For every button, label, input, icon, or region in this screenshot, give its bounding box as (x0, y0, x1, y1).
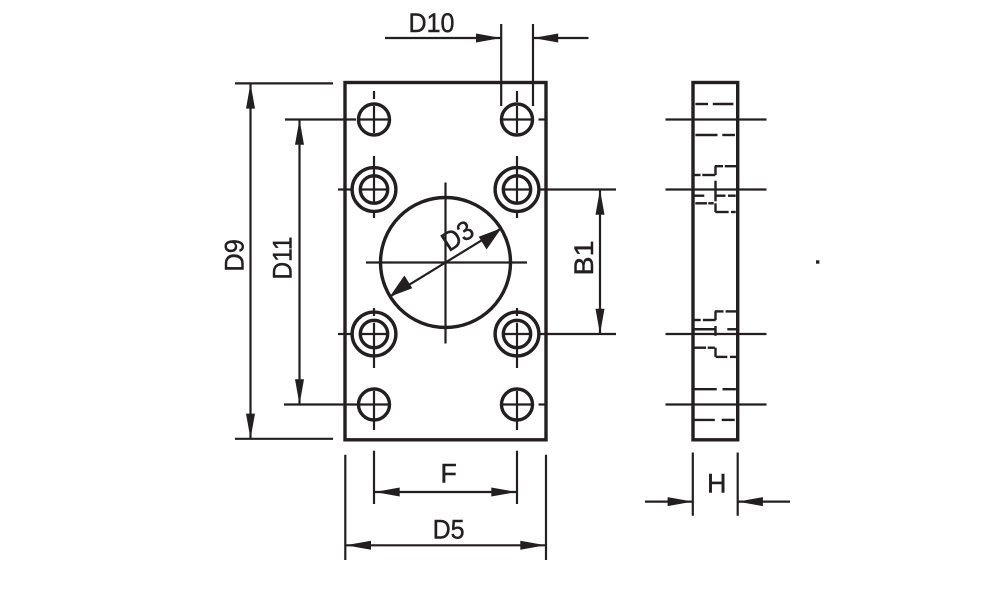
side view hidden lines: top small hole (695, 104, 735, 135)
D10 extension lines (501, 24, 533, 106)
svg-text:H: H (707, 469, 727, 499)
hole bottom-left small (359, 389, 390, 420)
counterbored hole bottom-left crosshair (338, 308, 388, 368)
D9 extension lines (235, 83, 333, 438)
hole bottom-right small (502, 389, 533, 420)
side view hole row centerlines (666, 120, 767, 405)
D5 dimension line (346, 541, 546, 550)
counterbored hole bottom-left (352, 312, 396, 356)
hole top-left small (359, 104, 390, 135)
B1 dimension line (596, 190, 605, 335)
H extension lines (693, 453, 738, 516)
side view hidden lines: bottom counterbored hole (694, 311, 737, 357)
svg-text:D5: D5 (433, 515, 465, 545)
hole top-right small (502, 104, 533, 135)
side view hidden lines: top counterbored hole (694, 166, 737, 212)
H dimension arrows (645, 497, 790, 506)
D11 dimension line (295, 120, 304, 405)
B1 extension lines (540, 190, 616, 335)
center bore horizontal centerline (366, 261, 527, 263)
svg-text:D3: D3 (436, 215, 480, 258)
svg-text:F: F (440, 459, 457, 489)
svg-text:D11: D11 (268, 237, 298, 280)
D10 dimension arrows (385, 34, 589, 43)
side view hidden lines: bottom small hole (694, 389, 736, 420)
counterbored hole top-left (352, 168, 396, 212)
side view hidden lines: center bore tangents (694, 196, 737, 330)
hole top-right small crosshair (503, 91, 545, 133)
counterbored hole top-right (495, 168, 539, 212)
svg-text:D9: D9 (220, 239, 250, 272)
D3 diameter arrow (390, 228, 502, 296)
D9 dimension line (246, 83, 255, 438)
hole bottom-right small crosshair (503, 391, 545, 430)
hole top-left small crosshair (360, 91, 388, 133)
center bore vertical centerline (444, 183, 446, 344)
counterbored hole top-right crosshair (503, 156, 531, 218)
counterbored hole top-left crosshair (338, 156, 388, 218)
F dimension line (375, 488, 517, 497)
F extension lines (374, 451, 517, 504)
D5 extension lines (345, 455, 546, 560)
svg-text:B1: B1 (569, 241, 599, 276)
counterbored hole bottom-right crosshair (503, 308, 531, 368)
counterbored hole bottom-right (495, 312, 539, 356)
hole bottom-left small crosshair (360, 391, 388, 430)
center bore D3 circle (381, 198, 511, 328)
front view plate outline (345, 83, 546, 440)
side view outline (693, 83, 738, 440)
svg-text:D10: D10 (409, 8, 455, 38)
side view center dot (816, 260, 819, 263)
D11 extension lines (284, 120, 359, 405)
